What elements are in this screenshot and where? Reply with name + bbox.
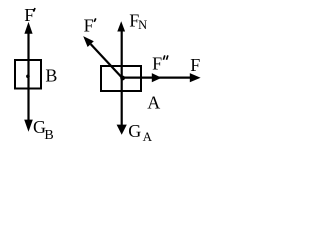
arrowhead G_B down (block B) [24, 120, 33, 132]
svg-text:F: F [190, 55, 200, 75]
svg-text:F: F [84, 15, 94, 35]
arrowhead G_A down (block A) [117, 125, 127, 135]
prime mark of F' (block A) [94, 18, 96, 21]
block B box [15, 60, 41, 89]
svg-text:B: B [45, 65, 57, 85]
block A center dot [120, 76, 125, 81]
arrowhead F' up (block B) [24, 22, 32, 34]
svg-text:N: N [138, 18, 147, 32]
arrowhead F' up-left (block A) [83, 36, 94, 47]
arrowhead F right (block A) [190, 73, 201, 82]
diagonal force line F' (block A, shaft) [91, 44, 123, 78]
svg-text:A: A [143, 129, 153, 144]
arrowhead F_N up (block A) [117, 21, 125, 31]
svg-text:F: F [152, 54, 162, 74]
prime mark of F' (block B) [34, 8, 35, 11]
horizontal force line F''/F (block A, shaft) [122, 76, 190, 78]
block A box [101, 66, 141, 91]
double prime mark of F'' [163, 55, 164, 59]
svg-text:A: A [147, 93, 160, 113]
block B center dot [26, 75, 30, 79]
svg-text:F: F [24, 5, 34, 25]
svg-text:G: G [128, 121, 141, 141]
arrowhead F'' right (block A) [152, 73, 162, 82]
block A vertical force line (shaft) [121, 31, 123, 126]
svg-text:B: B [44, 128, 53, 143]
block B vertical force line (shaft) [27, 32, 29, 121]
